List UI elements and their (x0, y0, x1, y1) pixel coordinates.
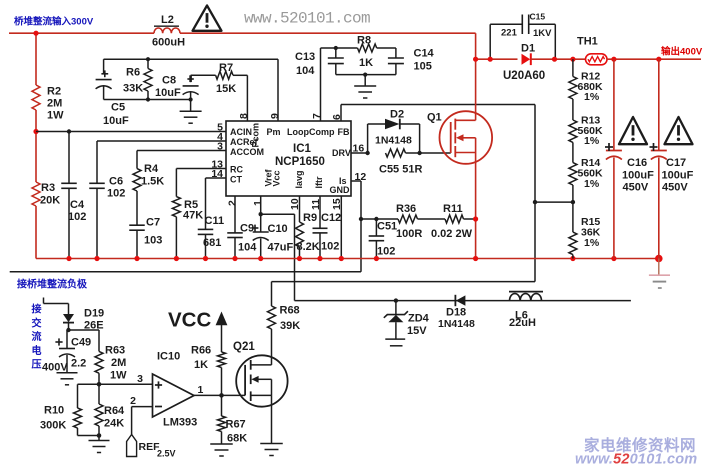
svg-text:15V: 15V (407, 325, 427, 337)
svg-text:100uF: 100uF (622, 170, 654, 182)
svg-text:Pcom: Pcom (251, 123, 261, 148)
svg-text:1KV: 1KV (533, 28, 552, 39)
svg-text:1: 1 (198, 384, 204, 396)
svg-text:3: 3 (137, 373, 143, 385)
svg-text:C55 51R: C55 51R (379, 164, 422, 176)
svg-text:L2: L2 (161, 14, 174, 26)
svg-text:www.520101.com: www.520101.com (575, 452, 697, 467)
svg-text:600uH: 600uH (152, 37, 185, 49)
svg-text:1%: 1% (584, 178, 600, 190)
svg-text:R63: R63 (105, 345, 125, 357)
svg-text:450V: 450V (662, 182, 688, 194)
svg-text:TH1: TH1 (577, 36, 598, 48)
svg-text:102: 102 (68, 211, 86, 223)
svg-text:IC1: IC1 (293, 143, 312, 155)
svg-text:R66: R66 (191, 345, 211, 357)
svg-text:100R: 100R (396, 228, 422, 240)
svg-text:Iavg: Iavg (294, 170, 304, 188)
svg-text:8.2K: 8.2K (297, 241, 320, 253)
svg-text:2: 2 (130, 395, 136, 407)
svg-text:Pm: Pm (267, 127, 281, 137)
svg-text:102: 102 (377, 246, 395, 258)
svg-text:1W: 1W (47, 110, 64, 122)
svg-text:1N4148: 1N4148 (375, 135, 412, 147)
svg-text:R64: R64 (104, 405, 125, 417)
svg-text:681: 681 (203, 237, 221, 249)
svg-text:R4: R4 (144, 163, 159, 175)
svg-text:1K: 1K (359, 57, 373, 69)
svg-text:GND: GND (330, 185, 351, 195)
svg-text:C16: C16 (627, 157, 647, 169)
svg-text:接: 接 (32, 303, 42, 316)
svg-text:输出400V: 输出400V (661, 46, 703, 58)
svg-text:C13: C13 (295, 51, 315, 63)
svg-text:RC: RC (230, 165, 243, 175)
svg-text:ZD4: ZD4 (408, 313, 430, 325)
svg-text:C11: C11 (205, 215, 225, 227)
svg-text:2M: 2M (47, 98, 62, 110)
svg-text:0.02 2W: 0.02 2W (431, 228, 473, 240)
svg-text:Q21: Q21 (233, 341, 255, 353)
svg-text:LoopComp: LoopComp (287, 127, 335, 137)
svg-text:104: 104 (296, 65, 315, 77)
svg-text:105: 105 (414, 61, 432, 73)
svg-text:C5: C5 (111, 102, 125, 114)
svg-text:D19: D19 (84, 308, 104, 320)
svg-text:C7: C7 (146, 217, 160, 229)
svg-text:Q1: Q1 (427, 112, 442, 124)
svg-text:400V: 400V (42, 362, 68, 374)
svg-text:Vcc: Vcc (272, 170, 282, 186)
svg-text:C12: C12 (321, 212, 341, 224)
svg-text:www.520101.com: www.520101.com (244, 10, 370, 28)
svg-text:103: 103 (144, 235, 162, 247)
svg-text:47uF: 47uF (268, 242, 294, 254)
svg-text:1K: 1K (194, 359, 208, 371)
svg-text:R6: R6 (126, 67, 140, 79)
svg-text:C14: C14 (414, 48, 435, 60)
svg-text:C6: C6 (109, 176, 123, 188)
svg-text:R36: R36 (396, 203, 416, 215)
svg-text:DRV: DRV (332, 148, 351, 158)
svg-text:接桥堆整流负极: 接桥堆整流负极 (17, 278, 88, 291)
svg-text:10uF: 10uF (155, 87, 181, 99)
svg-text:24K: 24K (104, 418, 124, 430)
svg-text:交: 交 (32, 316, 42, 329)
svg-text:R7: R7 (219, 62, 233, 74)
svg-text:R11: R11 (443, 203, 463, 215)
svg-text:9: 9 (269, 113, 281, 119)
svg-text:D2: D2 (390, 109, 404, 121)
svg-text:D18: D18 (446, 307, 466, 319)
svg-text:C51: C51 (377, 221, 397, 233)
svg-text:450V: 450V (623, 182, 649, 194)
svg-text:7: 7 (311, 113, 323, 119)
svg-text:39K: 39K (280, 320, 300, 332)
svg-text:1.5K: 1.5K (141, 176, 164, 188)
svg-text:Iftr: Iftr (314, 176, 324, 188)
svg-text:R10: R10 (44, 405, 64, 417)
svg-text:C8: C8 (162, 74, 176, 86)
svg-text:C17: C17 (666, 157, 686, 169)
svg-text:1%: 1% (584, 237, 600, 249)
svg-text:R67: R67 (226, 419, 246, 431)
svg-text:R9: R9 (303, 212, 317, 224)
svg-text:20K: 20K (40, 195, 60, 207)
svg-text:LM393: LM393 (163, 417, 197, 429)
svg-text:300K: 300K (40, 420, 66, 432)
svg-text:1N4148: 1N4148 (438, 318, 475, 330)
svg-text:IC10: IC10 (157, 351, 180, 363)
svg-text:VCC: VCC (168, 309, 211, 332)
svg-text:1W: 1W (110, 370, 127, 382)
svg-text:D1: D1 (521, 43, 535, 55)
svg-text:C15: C15 (530, 12, 546, 22)
svg-text:2: 2 (227, 200, 239, 206)
svg-text:ACIN: ACIN (230, 127, 252, 137)
svg-text:电: 电 (32, 344, 42, 357)
svg-text:R68: R68 (280, 305, 300, 317)
svg-text:104: 104 (238, 242, 257, 254)
svg-text:100uF: 100uF (662, 170, 694, 182)
svg-text:1: 1 (252, 200, 264, 206)
svg-text:47K: 47K (183, 210, 203, 222)
svg-text:CT: CT (230, 175, 242, 185)
svg-text:33K: 33K (123, 83, 143, 95)
svg-text:C49: C49 (71, 337, 91, 349)
svg-text:压: 压 (32, 359, 42, 371)
svg-text:U20A60: U20A60 (503, 70, 545, 82)
svg-text:68K: 68K (227, 433, 247, 445)
svg-text:8: 8 (238, 113, 250, 119)
svg-text:2M: 2M (111, 357, 126, 369)
svg-text:1%: 1% (584, 135, 600, 147)
svg-text:102: 102 (107, 188, 125, 200)
svg-text:NCP1650: NCP1650 (275, 156, 325, 168)
svg-text:102: 102 (321, 241, 339, 253)
svg-text:22uH: 22uH (509, 317, 536, 329)
svg-text:R3: R3 (41, 182, 55, 194)
svg-text:C4: C4 (70, 199, 85, 211)
svg-text:流: 流 (32, 330, 42, 343)
svg-text:2.2: 2.2 (71, 358, 86, 370)
svg-text:15K: 15K (216, 83, 236, 95)
svg-text:R2: R2 (47, 86, 61, 98)
svg-text:1%: 1% (584, 91, 600, 103)
svg-text:221: 221 (501, 28, 518, 39)
svg-text:R8: R8 (357, 35, 371, 47)
svg-text:C10: C10 (268, 223, 288, 235)
svg-text:FB: FB (338, 127, 350, 137)
svg-text:2.5V: 2.5V (157, 449, 176, 459)
svg-text:10uF: 10uF (103, 115, 129, 127)
svg-text:桥堆整流输入300V: 桥堆整流输入300V (14, 16, 94, 28)
